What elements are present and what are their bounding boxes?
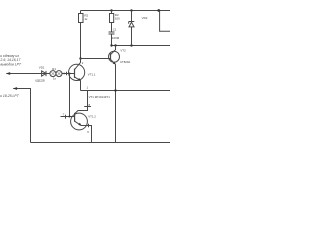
resistor R1 (twin circle symbol) (50, 71, 62, 77)
label VT1.1 (88, 72, 96, 76)
label pin 8 (89, 103, 91, 107)
svg-text:КД522Б: КД522Б (35, 79, 45, 83)
label VT1 type (89, 95, 111, 99)
svg-text:2: 2 (82, 61, 84, 65)
svg-text:VD2: VD2 (142, 16, 148, 20)
arrow VT1.1 emitter (78, 78, 81, 81)
diode VD1 (42, 71, 46, 76)
svg-text:VT1.1: VT1.1 (88, 72, 96, 76)
node load box corner junction (157, 9, 160, 12)
svg-text:1к: 1к (53, 77, 57, 81)
label R1 (52, 67, 56, 80)
arrow VT1.2 emitter (78, 123, 81, 126)
label pin 7 (63, 113, 65, 117)
node C1 bottom junction (110, 44, 112, 46)
label VT1.2 (88, 115, 96, 119)
wire VT2 emitter down (115, 64, 117, 142)
node R3 top junction (110, 9, 112, 11)
text LPT return note (0, 94, 19, 98)
wire gate branch down (69, 74, 71, 117)
svg-text:к 18-25 LPT: к 18-25 LPT (0, 94, 19, 98)
pin 8 tick (84, 106, 91, 108)
label VD1 (35, 66, 45, 83)
transistor VT1.2 (71, 113, 92, 143)
capacitor C1 (109, 32, 115, 46)
wire LPT return arrow (13, 89, 30, 143)
node VD2 top junction (130, 9, 132, 11)
arrow VT2 emitter (113, 62, 116, 65)
node VD2 bottom junction (130, 44, 132, 46)
svg-text:C1: C1 (113, 27, 117, 31)
pin 6 tick (88, 124, 90, 128)
wire lower supply (112, 45, 171, 47)
svg-text:VT1 КР1014КТ1: VT1 КР1014КТ1 (89, 95, 111, 99)
pin 3 tick of VT1.1 (66, 72, 68, 76)
wire emitter net horizontal (81, 90, 171, 92)
transistor VT2 (109, 46, 120, 65)
svg-text:R1: R1 (52, 67, 56, 71)
zener diode VD2 (129, 11, 135, 46)
svg-text:VT1.2: VT1.2 (88, 115, 96, 119)
label pin 1 (87, 86, 89, 90)
wire to VT2 base (81, 58, 111, 60)
svg-text:1к: 1к (84, 17, 88, 21)
load box (partially off image) (160, 11, 170, 32)
label R3 (115, 13, 120, 20)
svg-text:1: 1 (87, 86, 89, 90)
wire VT1.1 to VT1.2 link (75, 91, 88, 114)
node gate branch junction (69, 73, 71, 75)
label VD2 (142, 16, 148, 20)
svg-text:VT2: VT2 (120, 48, 126, 52)
svg-text:100М: 100М (112, 36, 120, 40)
wire gate stub VT1.2 (61, 116, 75, 118)
wire bottom rail (31, 142, 171, 144)
wire gate line with arrow to LPT (6, 73, 74, 75)
svg-text:6: 6 (87, 130, 89, 134)
label VT2 (120, 48, 130, 64)
resistor R2 (79, 11, 84, 59)
label pin 2 (82, 61, 84, 65)
wire top supply rail (81, 10, 171, 12)
node VT2 emitter junction (114, 89, 116, 91)
label pin 6 (87, 130, 89, 134)
text LPT pins note (0, 54, 22, 67)
label R2 (84, 13, 88, 21)
node gate stub junction (69, 116, 71, 118)
svg-text:VD1: VD1 (39, 66, 45, 70)
svg-text:2-9, 14,16,17: 2-9, 14,16,17 (0, 58, 20, 62)
pin 7 tick (65, 115, 67, 119)
label C1 (112, 27, 120, 40)
transistor VT1.1 (69, 59, 85, 91)
node VT1.1 drain junction (79, 57, 81, 59)
svg-text:выводов LPT: выводов LPT (0, 63, 21, 67)
arrow head return (13, 87, 17, 90)
node VT2 collector junction (114, 44, 116, 46)
svg-text:100: 100 (115, 17, 120, 21)
svg-text:КТ829А: КТ829А (120, 60, 130, 64)
resistor R3 (110, 11, 114, 33)
label pin 3 (63, 71, 65, 75)
arrow head left (6, 72, 10, 75)
